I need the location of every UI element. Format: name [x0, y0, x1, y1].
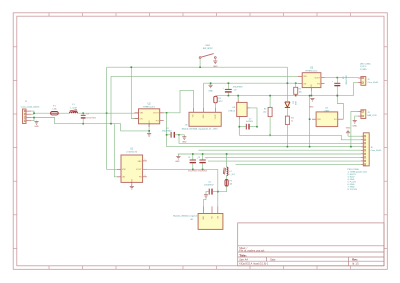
junction U4 feed bus — [309, 146, 311, 148]
junction U2 VOUT — [166, 112, 168, 114]
capacitor C7 plates — [245, 124, 247, 130]
wire LED chain top stub — [286, 84, 288, 101]
junction C1 top — [82, 112, 84, 114]
svg-text:FAN_CON: FAN_CON — [367, 114, 377, 117]
wire U2 VOUT vertical down — [166, 113, 168, 147]
svg-text:R1: R1 — [299, 89, 301, 91]
wire bus p7 — [205, 157, 361, 159]
U6 top pin — [237, 96, 239, 100]
junction C1 bottom — [82, 123, 84, 125]
wire U1 ON riser — [114, 124, 121, 177]
capacitor C2 right stub — [175, 134, 179, 136]
svg-text:2) GND: 2) GND — [360, 69, 367, 71]
A1 pin stubs — [203, 206, 205, 213]
junction C2 right — [178, 134, 180, 136]
U5 pin stubs — [193, 108, 195, 113]
wire rail neutral — [111, 75, 302, 77]
svg-text:VIN: VIN — [303, 76, 307, 78]
U2 pin stubs — [135, 112, 139, 114]
junction C3 bottom — [192, 169, 194, 171]
wire C2 to ground stub — [179, 135, 184, 137]
capacitor C5 left stub — [206, 192, 209, 195]
junction R2 top — [269, 95, 271, 97]
svg-text:10k: 10k — [299, 91, 302, 93]
wire F3 down to VOUT net — [218, 186, 227, 191]
wire U4 feed vertical — [309, 96, 311, 147]
wire p6 ground stub — [177, 154, 179, 156]
svg-text:1. 5VSB (purple wire): 1. 5VSB (purple wire) — [348, 170, 368, 173]
svg-text:D1: D1 — [292, 102, 294, 104]
junction U3 GND — [311, 95, 313, 97]
inductor L2 ferrite — [227, 167, 228, 175]
wire U4 right pin to rail G — [337, 96, 343, 120]
svg-text:VOUT: VOUT — [136, 169, 142, 171]
junction J1 pins — [33, 112, 35, 114]
wire fuse to ferrite — [58, 112, 69, 114]
wire LED to R3 — [286, 108, 288, 116]
junction J3 feed — [350, 146, 352, 148]
wire bus p5 — [198, 149, 361, 151]
svg-text:Title:: Title: — [239, 253, 246, 257]
svg-text:LT1074CT5: LT1074CT5 — [126, 152, 138, 154]
junction C5 joint — [217, 191, 219, 193]
wire L2 to F3 — [226, 176, 228, 180]
wire A1 pin1 to ground — [204, 198, 207, 207]
junction rail1 V3 — [131, 66, 133, 68]
capacitor C6 plates — [334, 82, 340, 84]
resistor R1 body — [294, 87, 298, 94]
svg-text:R78E5.0-0.5: R78E5.0-0.5 — [143, 106, 156, 108]
svg-text:KiCad E.D.A. kicad (5.1.6)-1: KiCad E.D.A. kicad (5.1.6)-1 — [239, 263, 269, 266]
connector J6 body — [363, 133, 369, 166]
svg-text:5: 5 — [145, 159, 146, 161]
svg-text:L7805: L7805 — [324, 110, 330, 112]
junction C4 bottom — [202, 169, 204, 171]
wire V3 rail1 to U2 ON — [131, 67, 138, 118]
wire U2 VOUT to junction — [160, 112, 167, 114]
svg-text:470uF/36V: 470uF/36V — [162, 131, 172, 133]
module A1 body — [198, 214, 223, 230]
module U5 body — [189, 112, 221, 126]
svg-text:4: 4 — [145, 175, 146, 177]
wire U6 VOUT down — [250, 108, 257, 127]
junction U3 ON — [295, 82, 297, 84]
ground U2 — [147, 133, 151, 135]
svg-text:L78L05: L78L05 — [228, 110, 236, 112]
switch SW1 — [199, 57, 201, 59]
ground J3 — [353, 120, 357, 122]
capacitor C5 plates — [208, 189, 210, 195]
regulator U6 body — [237, 102, 247, 116]
wire bus p6 — [178, 153, 361, 155]
wire C7 rail — [239, 126, 246, 128]
svg-text:Module_MT3608_regulator(1.2V -: Module_MT3608_regulator(1.2V - 28V) — [182, 128, 218, 131]
svg-text:NTC: NTC — [219, 101, 224, 103]
svg-text:SW1: SW1 — [205, 45, 211, 47]
svg-text:GND: GND — [175, 161, 180, 163]
wire J1 pin1/2 merge — [31, 111, 34, 114]
capacitor C8 plates — [225, 88, 232, 90]
regulator U1 body — [121, 155, 143, 182]
svg-text:Module_LM2662_negative: Module_LM2662_negative — [173, 215, 198, 218]
capacitor C2 left stub — [167, 134, 171, 136]
wire bus p4 +5V — [167, 146, 361, 148]
svg-text:GND: GND — [352, 126, 357, 128]
svg-text:L_2u2: L_2u2 — [230, 174, 235, 176]
svg-text:GND: GND — [149, 120, 151, 125]
svg-text:PG: PG — [317, 84, 320, 86]
svg-text:VIN: VIN — [122, 169, 126, 171]
svg-text:VOUT: VOUT — [314, 78, 320, 80]
capacitor C2 plates — [170, 132, 172, 138]
junction U4 feed top — [309, 95, 311, 97]
wire J2 pin2 to rail G — [354, 83, 359, 96]
junction R2 bottom — [269, 135, 271, 137]
wire R3 to bus p4 — [286, 125, 288, 147]
junction R3 bus — [287, 146, 289, 148]
ground p6 — [176, 155, 180, 157]
junction C6 top — [337, 77, 339, 79]
svg-text:470uF/36V: 470uF/36V — [233, 87, 243, 89]
wire U5 pin1 bridge — [167, 90, 194, 113]
thermistor K1 body — [214, 96, 217, 102]
ground C5 — [204, 194, 208, 196]
wire rail1 corner down to rail H — [286, 67, 288, 83]
connector J3 pins — [358, 111, 361, 113]
capacitor C1 stubs — [82, 113, 84, 115]
junction C7 right — [256, 126, 258, 128]
capacitor C4 plates — [199, 159, 205, 161]
wire U3 GND down — [310, 88, 312, 96]
U4 right pin — [338, 118, 344, 120]
U3 pin stubs — [298, 75, 302, 77]
svg-text:GND: GND — [346, 128, 351, 130]
wire rail G — [216, 95, 354, 97]
ground bus inverted — [346, 132, 350, 134]
ground J1 — [36, 120, 38, 123]
U4 left pin — [312, 118, 316, 120]
svg-text:LED CON4:: LED CON4: — [360, 63, 371, 65]
svg-text:R3: R3 — [291, 118, 293, 120]
capacitor C4 stubs — [202, 154, 204, 160]
wire J3 pin2 to ground — [355, 116, 358, 120]
fuse F1 — [51, 112, 59, 115]
svg-text:VIN: VIN — [317, 119, 321, 121]
svg-text:Rev:: Rev: — [352, 259, 358, 262]
svg-text:470uF/35V: 470uF/35V — [198, 171, 208, 173]
wire U1 VOUT net — [143, 168, 218, 170]
capacitor C8 stubs — [227, 83, 229, 89]
junction C6 bottom — [337, 95, 339, 97]
capacitor C3 plates — [190, 159, 196, 161]
junction C8 bottom — [228, 95, 230, 97]
wire chain top stub — [226, 154, 228, 167]
capacitor C6 stubs — [336, 78, 338, 83]
title block row lines — [238, 245, 384, 247]
title block comment box — [238, 223, 384, 266]
wire J3 pin1 feed — [351, 112, 358, 147]
junction rail H corner — [287, 82, 289, 84]
svg-text:L_5mH: L_5mH — [70, 107, 77, 109]
svg-text:VOUT: VOUT — [153, 113, 159, 115]
svg-text:2k2: 2k2 — [263, 112, 266, 114]
junction U4 left pin — [309, 118, 311, 120]
svg-text:C4: C4 — [198, 157, 200, 159]
svg-text:GND: GND — [213, 66, 218, 68]
wire p1 ground stub — [347, 133, 349, 136]
wire VOUT net down — [217, 169, 219, 206]
svg-text:File: al_modern_psu.sch: File: al_modern_psu.sch — [239, 250, 265, 253]
svg-text:GND: GND — [34, 126, 39, 128]
svg-text:8. VCC/5V: 8. VCC/5V — [348, 189, 358, 191]
svg-text:SW_SPST: SW_SPST — [203, 48, 214, 50]
svg-text:470uF/35V: 470uF/35V — [188, 171, 198, 173]
svg-text:Id: 1/1: Id: 1/1 — [352, 264, 359, 266]
svg-text:VO: VO — [334, 119, 337, 121]
svg-text:LED: LED — [294, 102, 296, 106]
svg-text:U5: U5 — [185, 125, 187, 127]
svg-text:Conn_01x09: Conn_01x09 — [371, 150, 382, 152]
wire U3 VOUT net — [321, 77, 358, 79]
ground C2 — [182, 136, 186, 138]
regulator U4 body — [316, 112, 338, 127]
connector J6 pins — [361, 135, 363, 137]
svg-text:GND: GND — [132, 178, 134, 183]
svg-text:R78E5.0-0.5: R78E5.0-0.5 — [306, 71, 319, 73]
svg-text:R2: R2 — [264, 109, 266, 111]
wire J1 top net to fuse — [34, 112, 51, 114]
wire U3 ON from rail H — [296, 82, 303, 84]
connector J3 body — [361, 110, 366, 119]
svg-text:Date:: Date: — [270, 259, 276, 262]
wire J1 pin3/4 merge — [31, 118, 34, 121]
ground rail H stub — [210, 83, 212, 85]
wire bus p9 — [236, 164, 361, 166]
wire vertical rail1 to U1 VIN — [107, 67, 121, 169]
connector J1 body — [23, 109, 27, 124]
svg-text:VIN: VIN — [140, 113, 144, 115]
svg-text:Conn_01x04_(230V): Conn_01x04_(230V) — [21, 107, 40, 109]
svg-text:1k: 1k — [291, 121, 293, 123]
K1 stubs — [215, 95, 217, 98]
svg-text:C3: C3 — [188, 157, 190, 159]
svg-text:PG: PG — [156, 120, 159, 122]
capacitor C1 plates — [81, 114, 86, 116]
regulator U2 body — [139, 109, 160, 124]
ground U3 — [310, 97, 314, 99]
svg-text:Conn_01x02: Conn_01x02 — [367, 82, 378, 84]
resistor R3 body — [285, 116, 289, 124]
svg-text:C6: C6 — [341, 77, 343, 79]
svg-text:1uF/50V: 1uF/50V — [246, 121, 254, 123]
wire rail live top — [107, 66, 288, 68]
connector J1 pins — [26, 110, 31, 112]
capacitor C5 right stub — [212, 191, 218, 193]
wire J1 bottom net — [34, 118, 149, 131]
ground U1 — [130, 185, 134, 187]
svg-text:Size: A4: Size: A4 — [239, 259, 248, 262]
svg-text:470uF/36V: 470uF/36V — [344, 76, 346, 86]
frame column/row division ticks — [48, 13, 50, 16]
wire rail H — [204, 82, 296, 84]
svg-text:VBS: VBS — [138, 161, 143, 163]
wire switch to ground — [214, 58, 216, 60]
wire bus p1 GND — [348, 135, 361, 137]
junction rail2 drop — [110, 123, 112, 125]
R1 stubs — [295, 83, 297, 87]
junction C2 left — [166, 134, 168, 136]
ground SW1 — [213, 60, 217, 62]
svg-text:470uF/35V: 470uF/35V — [86, 118, 96, 120]
capacitor C3 stubs — [192, 154, 194, 160]
wire ferrite to U2 VIN — [78, 112, 139, 114]
led D1 — [285, 101, 290, 108]
R2 stubs — [269, 96, 271, 108]
wire switch to rail1 — [199, 58, 201, 67]
junction U2 GND — [148, 130, 150, 132]
wire U6 net to bus p2 — [239, 135, 361, 140]
svg-text:470uF/35V: 470uF/35V — [204, 185, 214, 187]
junction U6 bottom — [239, 126, 241, 128]
U6 bottom pin — [238, 117, 240, 120]
ground rail H — [209, 84, 213, 86]
U1 pin stubs — [117, 168, 121, 170]
connector J2 body — [361, 77, 366, 86]
svg-text:1) VCC: 1) VCC — [360, 66, 367, 68]
svg-text:GND: GND — [208, 90, 213, 92]
regulator U3 body — [302, 73, 321, 88]
wire bus p8 — [208, 160, 361, 162]
resistor R2 body — [268, 107, 272, 116]
svg-text:VOUT: VOUT — [215, 115, 217, 120]
wire U2 GND chain — [148, 124, 150, 134]
junction switch on rail1 — [199, 66, 201, 68]
wire bus p3 from C2 — [179, 135, 361, 144]
inductor L1 ferrite — [70, 112, 78, 113]
junction R1 bottom — [295, 95, 297, 97]
svg-text:1.5A: 1.5A — [52, 108, 57, 111]
connector J2 pins — [358, 77, 361, 79]
wire vertical rail2 down — [110, 76, 112, 123]
U6 right pin — [247, 107, 250, 109]
fuse F3 — [225, 179, 228, 186]
junction fuse net / U1 feed — [106, 112, 108, 114]
wire U5 pin2 riser — [203, 83, 205, 108]
